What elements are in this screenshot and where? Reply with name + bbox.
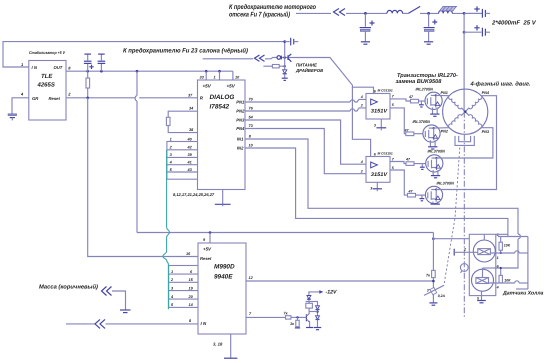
svg-text:2*4000mF 25 V: 2*4000mF 25 V: [491, 20, 537, 27]
motor shaft axis dash-dot line: [463, 112, 465, 318]
svg-text:ДРАЙВЕРОВ: ДРАЙВЕРОВ: [295, 68, 323, 73]
svg-text:41: 41: [187, 161, 192, 165]
wire +5V to hall sensors: [433, 238, 469, 240]
motor mount bracket: [455, 136, 474, 146]
svg-text:0,2A: 0,2A: [438, 294, 446, 298]
M990D left connector boxes 1-5: [169, 266, 198, 308]
DIALOG right pin wires PN1: [245, 98, 366, 103]
svg-text:отсека Fu 7 (красный): отсека Fu 7 (красный): [229, 11, 291, 19]
svg-text:3151V: 3151V: [371, 172, 388, 178]
diode VD3: [307, 296, 311, 300]
svg-text:4265S: 4265S: [37, 82, 55, 89]
wire IN net from left: [66, 323, 95, 325]
mechanical link dashed to switch: [444, 148, 460, 286]
ground under zener: [282, 78, 288, 80]
label: Стабилизатор +5 V: [29, 50, 65, 55]
label: К предохранителю Fu 23 салона (чёрный): [123, 48, 248, 55]
svg-text:+5V: +5V: [203, 247, 212, 252]
wire Q4 drain to motor PN4 riser: [436, 91, 496, 190]
hall B2 pin 5 ground: [477, 291, 486, 303]
svg-text:10К: 10К: [504, 279, 511, 283]
svg-text:3, 18: 3, 18: [213, 342, 223, 347]
svg-text:замена BUK9508: замена BUK9508: [396, 79, 443, 85]
hall B2 pin 4 wire to connector: [489, 281, 528, 290]
connector X2 chevrons: [255, 55, 265, 61]
wire TLE Reset to DIALOG R: [66, 97, 198, 100]
svg-text:Reset: Reset: [49, 96, 61, 101]
M990D pin 7 wire: [246, 312, 286, 318]
svg-text:1: 1: [214, 76, 216, 80]
wire Fu23 to regulator node: [265, 58, 277, 59]
connector X4 chevrons IN: [95, 319, 105, 328]
IC U3 TLE4265S voltage regulator: [29, 61, 66, 121]
svg-text:1: 1: [497, 256, 499, 260]
label Транзисторы IRL270- замена BUK9508: [396, 73, 458, 85]
connector X3 chevrons масса: [102, 287, 112, 296]
DIALOG right pin wires PN2: [245, 107, 366, 112]
svg-text:3: 3: [374, 123, 376, 127]
svg-text:TLE: TLE: [41, 73, 53, 80]
svg-text:4-фазный шаг. двиг.: 4-фазный шаг. двиг.: [469, 81, 530, 88]
wire Q3 drain to motor PN3 riser: [437, 128, 493, 158]
connector X1 chevrons on +12V input: [334, 9, 346, 16]
IC U4 DIALOG I78542: [198, 80, 246, 190]
pin number labels DIALOG top: [200, 76, 241, 80]
-12V generator: wire and arrow: [309, 290, 337, 302]
ground at M990D pins 3,18: [213, 334, 237, 358]
svg-text:-12V: -12V: [326, 290, 337, 296]
transistor Q5 driver supply regulator: [288, 54, 291, 62]
label 4-фазный шаг. двиг.: [469, 81, 530, 88]
hall B1 pin 1 wire to connector: [490, 251, 528, 260]
pin labels TLE: [20, 62, 71, 97]
wire from Fu7 label to main +12V rail: [296, 12, 331, 14]
svg-text:M C03151: M C03151: [378, 88, 393, 92]
switch S1: [408, 6, 420, 13]
resistor R8 7k base: [284, 312, 307, 320]
hall B1 pin 3 label: [496, 233, 508, 237]
relay coil K1: [306, 302, 318, 312]
svg-text:43: 43: [187, 168, 193, 172]
svg-text:PN4: PN4: [236, 126, 245, 131]
svg-text:3151V: 3151V: [371, 109, 388, 115]
svg-text:К предохранителю Fu 23 салона: К предохранителю Fu 23 салона (чёрный): [123, 48, 248, 55]
svg-text:2: 2: [360, 169, 363, 173]
hall sensor B1: [473, 234, 495, 262]
inductor L2 with core: [439, 6, 457, 13]
ground U2 pin 3: [373, 182, 382, 191]
wire Fu23 net to connector: [203, 58, 253, 60]
DIALOG top +5V pin stubs: [206, 71, 233, 80]
svg-text:9940E: 9940E: [214, 274, 233, 281]
svg-text:1: 1: [171, 270, 173, 274]
capacitor C6 on +5V rail: [84, 54, 94, 71]
wire driver supply diagonal to 3151V chips: [293, 58, 374, 94]
svg-text:Транзисторы IRL270-: Транзисторы IRL270-: [397, 73, 458, 79]
transistor Q4 IRL3705N: [420, 181, 455, 204]
ground масса: [120, 310, 131, 313]
svg-text:Стабилизатор +5 V: Стабилизатор +5 V: [29, 50, 65, 55]
zener diode VD5: [314, 316, 321, 330]
label Датчики Холла: [502, 290, 544, 296]
teal bus wire DIALOG to M990D: [163, 150, 170, 309]
DIALOG right pin wires PN3 to U2 pin4: [245, 116, 366, 165]
svg-text:M C03151: M C03151: [378, 151, 393, 155]
svg-text:PN2: PN2: [441, 129, 449, 133]
resistor R2 bias: [263, 58, 286, 70]
resistor R7 gate 47 Q4: [390, 170, 426, 197]
svg-text:IRL3705N: IRL3705N: [413, 120, 431, 124]
DIALOG box row labels: [169, 137, 193, 172]
main +12V power rail: [346, 12, 482, 14]
IC U1 3151V driver: [360, 88, 395, 127]
hall sensor B2: [472, 268, 496, 291]
capacitor C5 at driver supply: [283, 38, 298, 46]
wire +12V down to motor common: [463, 13, 465, 111]
svg-text:PN1: PN1: [236, 100, 245, 105]
svg-text:К предохранителю моторного: К предохранителю моторного: [229, 4, 316, 11]
wire driver supply down to U2 pin6: [352, 87, 370, 156]
svg-text:Reset: Reset: [200, 256, 212, 261]
svg-text:IRL3705N: IRL3705N: [428, 149, 446, 153]
IC U5 M990D 9940E: [198, 243, 246, 334]
svg-text:PN1: PN1: [441, 91, 448, 95]
IC U2 3151V driver: [360, 151, 395, 190]
svg-text:2: 2: [360, 104, 363, 108]
svg-text:IRL2705N: IRL2705N: [416, 87, 434, 91]
resistor R3 between DIALOG pins 34 and 38: [166, 107, 197, 133]
svg-text:I78542: I78542: [210, 104, 230, 111]
svg-text:40: 40: [187, 137, 193, 141]
DIALOG right pin wires PN4 to U2 pin2: [245, 124, 366, 174]
resistor R12 10K: [499, 267, 511, 283]
svg-text:PN3: PN3: [482, 130, 490, 134]
zener diode VD2: [283, 70, 287, 78]
svg-text:IRL3705N: IRL3705N: [437, 181, 455, 185]
label Масса (коричневый): [39, 284, 98, 291]
svg-text:8,12,17,21,24,25,26,27: 8,12,17,21,24,25,26,27: [173, 192, 215, 197]
svg-text:20: 20: [188, 295, 194, 299]
pin label 37: [188, 93, 193, 97]
pin label 16 reset: [186, 252, 191, 256]
svg-text:10К: 10К: [504, 243, 511, 247]
transistor Q3 IRL3705N: [420, 149, 445, 178]
svg-text:GR: GR: [32, 96, 38, 101]
ground U1 pin 3: [376, 119, 386, 130]
svg-text:Датчики Холла: Датчики Холла: [502, 290, 544, 296]
transistor Q1 IRL2705N: [416, 87, 443, 116]
switch S2 0,2A: [424, 285, 446, 305]
label: ПИТАНИЕ ДРАЙВЕРОВ: [295, 63, 323, 73]
svg-text:IN1: IN1: [237, 137, 244, 142]
resistor R11 10K: [499, 237, 511, 255]
transistor Q6: [306, 312, 318, 328]
svg-text:M990D: M990D: [214, 264, 235, 271]
resistor R6 gate 47 Q3: [390, 158, 426, 166]
M990D pin 12 rail: [246, 276, 433, 281]
wire +5V drop to M990D pin9 with hop over reset: [135, 71, 137, 232]
capacitor C3 4000mF: [464, 6, 490, 17]
DIALOG left connector boxes 1-5: [167, 142, 198, 180]
svg-text:2: 2: [463, 247, 466, 251]
svg-text:1: 1: [170, 137, 172, 141]
wire reset bus down to M990D Reset: [88, 98, 198, 257]
inductor L1: [387, 10, 403, 13]
magnet rotor symbol: [460, 264, 468, 273]
svg-text:+5V: +5V: [203, 84, 212, 89]
wire +5V rail into M990D pin 9: [137, 231, 433, 243]
capacitor C2 electrolytic to ground: [424, 12, 438, 44]
svg-text:3: 3: [370, 186, 372, 190]
svg-text:42: 42: [187, 146, 193, 150]
motor M1 stepper: [443, 89, 488, 134]
capacitor C7 on +5V rail: [98, 54, 106, 71]
transistor Q2 IRL3705N: [413, 120, 441, 149]
svg-text:PN4: PN4: [482, 91, 490, 95]
svg-text:4: 4: [360, 95, 363, 99]
hall B2 pin 6 label: [497, 264, 500, 268]
wire TLE GR pin to ground: [12, 98, 29, 114]
svg-text:PN3: PN3: [236, 118, 245, 123]
svg-text:OUT: OUT: [54, 65, 63, 70]
svg-text:+5V: +5V: [227, 84, 236, 89]
node driver supply junction: [282, 56, 293, 59]
svg-text:I N: I N: [201, 321, 207, 326]
resistor R10 7k hall feed: [426, 233, 435, 288]
hall assembly housing box: [469, 234, 496, 295]
svg-text:4: 4: [496, 286, 499, 290]
resistor R4 gate 47 Q1: [390, 95, 425, 103]
resistor R1 reset pull-up: [86, 71, 90, 98]
M990D box row labels: [170, 270, 194, 307]
DIALOG IN1 wire to hall rail: [245, 135, 520, 269]
DIALOG IN2 wire to hall rail: [245, 144, 508, 237]
resistor R9 1k to ground: [290, 317, 300, 328]
svg-text:DIALOG: DIALOG: [210, 94, 235, 101]
hall B1 pin 2 terminal: [454, 247, 478, 255]
svg-text:PN2: PN2: [236, 109, 245, 114]
capacitor C1 electrolytic to ground: [360, 12, 375, 44]
zener diode VD4: [316, 302, 320, 316]
resistor R5 gate 47 Q2: [390, 108, 423, 136]
top-left rail to TLE input: [3, 42, 285, 67]
diode D1 in supply: [277, 56, 281, 60]
label: К предохранителю моторного отсека Fu 7 (красный): [229, 4, 316, 19]
wire Q2 drain to motor PN2: [434, 128, 450, 134]
wire масса to ground: [112, 291, 126, 310]
node +12V motor feed junction: [463, 12, 466, 34]
connector tick row: [498, 237, 528, 290]
ground at DIALOG pins 8,12,17,21,24,25,26,27: [173, 190, 231, 207]
wire Q1 drain to motor PN1: [436, 91, 449, 96]
svg-text:IN2: IN2: [237, 146, 244, 151]
svg-text:4: 4: [360, 160, 363, 164]
+5V rail from TLE OUT: [66, 70, 233, 73]
label: 2*4000mF 25 V: [491, 20, 537, 27]
ground at TLE GR: [8, 114, 17, 121]
capacitor C4 4000mF: [464, 25, 490, 36]
wire connector to M990D IN pin 8: [106, 319, 199, 324]
svg-text:Масса (коричневый): Масса (коричневый): [39, 284, 98, 291]
